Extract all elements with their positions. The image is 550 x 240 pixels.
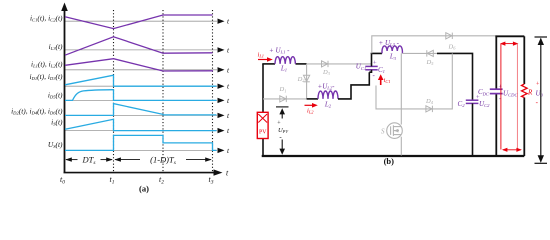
wire: L3 run black xyxy=(372,52,383,55)
waveform iC1 iC2 xyxy=(65,15,213,29)
diode D6 xyxy=(446,33,453,39)
wire gray: top D6 run xyxy=(372,36,497,54)
current arrow iC1 xyxy=(378,74,391,85)
wire gray: D5 run xyxy=(402,52,437,54)
transistor S (MOSFET) xyxy=(387,123,403,139)
current arrow iL2 xyxy=(305,103,318,115)
diode D1 xyxy=(280,96,287,102)
inductor L2 xyxy=(318,91,338,99)
DTs dimension arrow xyxy=(66,159,112,161)
diode D4 xyxy=(426,106,433,112)
output box right edge with R xyxy=(523,36,525,84)
wire: top input run with L1 xyxy=(262,63,275,65)
wire gray: S drain / D4 net xyxy=(376,53,452,109)
diode D5 (points left) xyxy=(427,50,434,56)
wire: left branch vertical (PV to L1) xyxy=(262,64,264,112)
(1-D)Ts dimension arrow xyxy=(115,159,211,161)
row baselines xyxy=(65,21,218,150)
wire: C2 to bus xyxy=(472,103,474,155)
PV module xyxy=(257,112,268,138)
svg-text:+ UL1 -: + UL1 - xyxy=(269,47,290,55)
wire: D5 to C2 corner xyxy=(437,53,473,100)
wire: L2 run xyxy=(307,98,318,100)
waveform iD2 iD4 iD6 xyxy=(65,104,217,116)
wire gray: D1 branch xyxy=(263,98,307,100)
svg-text:iD2(t), iD4(t), iD6(t): iD2(t), iD4(t), iD6(t) xyxy=(11,107,63,116)
wire gray: D3 run to C1 xyxy=(307,63,372,65)
wire: bottom bus xyxy=(262,155,525,157)
capacitor CDC xyxy=(490,89,503,93)
wire: L2 to C1 staircase xyxy=(338,72,369,99)
wire: C1 top vertical xyxy=(371,53,373,66)
waveform US xyxy=(65,135,217,150)
vertical axis xyxy=(61,3,68,173)
svg-text:PV: PV xyxy=(259,130,267,136)
svg-text:+UL2-: +UL2- xyxy=(318,83,336,91)
capacitor C1 xyxy=(365,66,377,69)
t0 t1 t2 t3 labels xyxy=(60,175,214,186)
horizontal time axis xyxy=(64,169,230,178)
row labels xyxy=(11,13,63,149)
svg-text:(b): (b) xyxy=(384,156,395,166)
output voltage dimension U0 xyxy=(535,37,548,163)
voltage indicator UPV xyxy=(276,107,289,155)
svg-text:+: + xyxy=(373,59,377,66)
svg-text:(1-D)Ts: (1-D)Ts xyxy=(150,155,176,167)
capacitor C2 xyxy=(466,100,479,103)
red current loop in output box xyxy=(501,44,521,150)
svg-text:R: R xyxy=(527,88,533,96)
current arrow iL1 xyxy=(258,52,273,62)
diode D3 xyxy=(322,61,329,67)
resistor R xyxy=(522,84,528,98)
inductor L3 xyxy=(382,46,402,53)
wire: PV bottom to bus xyxy=(262,139,264,156)
waveform iL3 xyxy=(65,37,213,55)
wire gray: D2 branch vertical xyxy=(306,64,308,99)
svg-text:S: S xyxy=(381,127,385,135)
inductor L1 xyxy=(275,57,295,64)
waveform iS xyxy=(65,119,217,130)
waveform iD1 iD3 xyxy=(65,75,217,86)
output box left edge with CDC xyxy=(495,94,497,156)
waveform iL1 iL2 xyxy=(65,59,213,71)
svg-text:US(t): US(t) xyxy=(48,140,63,149)
svg-text:(a): (a) xyxy=(139,184,149,194)
output box top edge xyxy=(495,35,524,37)
svg-text:+ UL3 -: + UL3 - xyxy=(379,39,400,47)
waveform iD5 xyxy=(65,90,217,101)
dashed time gridlines t1 t2 t3 xyxy=(114,10,213,172)
svg-text:iS(t): iS(t) xyxy=(51,118,63,127)
diode D2 xyxy=(303,75,309,82)
row t-axis arrows xyxy=(218,19,225,154)
